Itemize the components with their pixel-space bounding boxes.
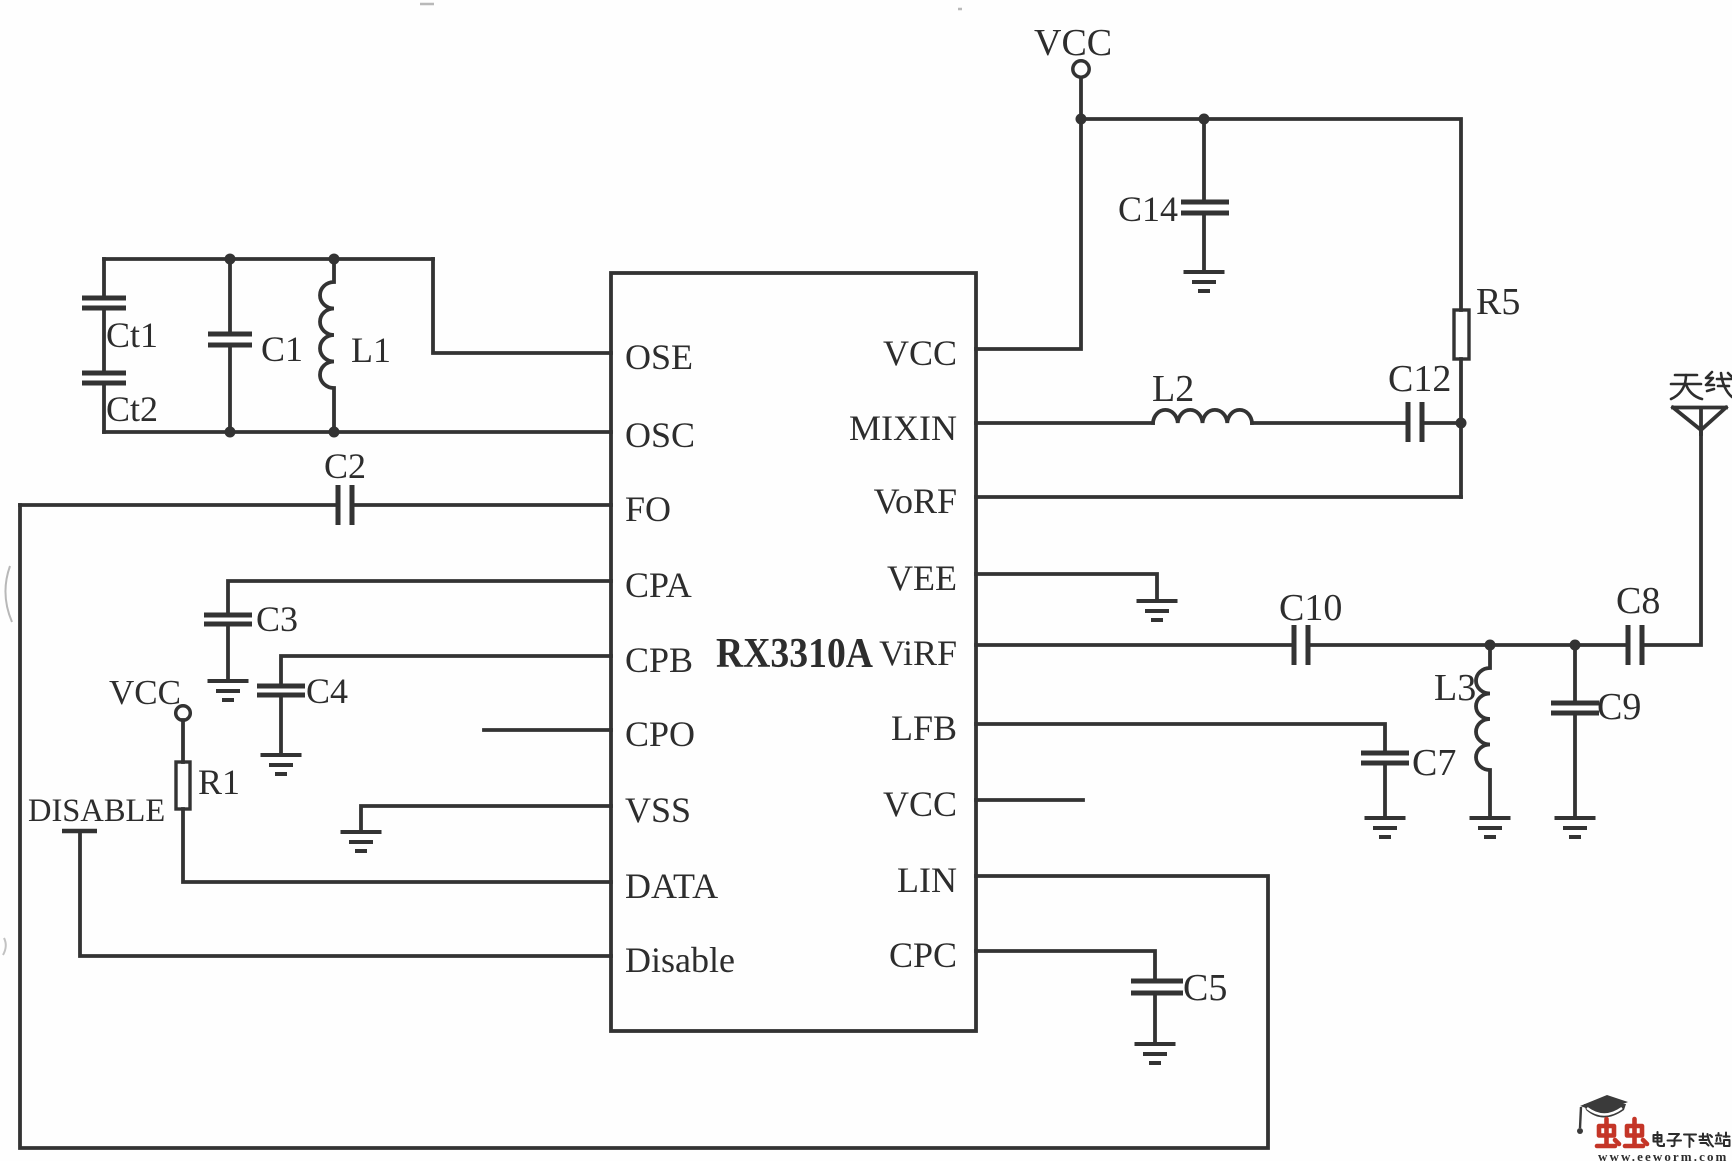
svg-text:VSS: VSS (625, 790, 691, 830)
capacitor Ct2 (82, 373, 126, 383)
svg-text:L1: L1 (351, 330, 391, 370)
scan artifact: left edge arc (5, 566, 12, 622)
wire: C12 to node (1422, 421, 1461, 425)
wire: tank to OSE pin (433, 259, 611, 353)
wire: C14 top lead (1202, 119, 1206, 200)
terminal: DISABLE input bar (62, 829, 97, 834)
scan artifact: top specks (420, 4, 962, 9)
svg-text:CPO: CPO (625, 714, 695, 754)
junction: L1 bottom (329, 427, 340, 438)
wire: C9 top lead (1573, 645, 1577, 701)
svg-text:L2: L2 (1152, 368, 1194, 410)
wire: C14 to ground (1202, 215, 1206, 272)
ground under C4 (261, 755, 302, 774)
wire: L2 to C12 (1252, 421, 1408, 425)
wire: oscillator tank left vertical (gaps at Ct1, Ct2) (102, 259, 106, 432)
wire: C3 to ground (226, 626, 230, 681)
svg-text:R5: R5 (1476, 281, 1520, 323)
watermark: red chong character 2 (1625, 1119, 1647, 1146)
antenna symbol (1673, 408, 1726, 435)
wire: CPB pin to C4 (281, 656, 611, 684)
wire: MIXIN pin to L2 (976, 421, 1153, 425)
wire: C10 to C8 across L3 and C9 nodes (1308, 643, 1628, 647)
wire: oscillator tank top rail (104, 257, 433, 261)
wire: FO pin to C2 (352, 503, 611, 507)
wire: VCC terminal down to VCC pin (976, 78, 1081, 349)
scan artifact: left edge tick (3, 938, 6, 955)
svg-text:C1: C1 (261, 329, 303, 369)
wire: feedback loop left, bottom and LIN riser (20, 505, 1268, 1148)
capacitor Ct1 (82, 298, 126, 308)
IC U1 RX3310A body (611, 273, 976, 1031)
capacitor C9 (1551, 703, 1599, 713)
svg-text:DISABLE: DISABLE (28, 793, 165, 829)
svg-text:DATA: DATA (625, 866, 718, 906)
ground under L3 (1470, 818, 1511, 837)
capacitor C12 (1408, 402, 1422, 442)
capacitor C10 (1294, 625, 1308, 665)
junction: C14 / rail (1199, 114, 1210, 125)
svg-text:CPB: CPB (625, 640, 693, 680)
svg-text:C5: C5 (1183, 967, 1227, 1009)
resistor R5 (1454, 310, 1469, 359)
watermark: red chong character 1 (1597, 1119, 1619, 1146)
svg-text:RX3310A: RX3310A (716, 631, 874, 677)
wire: OSC net bottom rail into OSC pin (104, 430, 611, 434)
capacitor C8 (1628, 625, 1642, 665)
inductor L1 (320, 259, 334, 432)
terminal: VCC circle top (1073, 61, 1089, 77)
inductor L3 (1476, 645, 1490, 817)
wire: VCC terminal to R1 (181, 720, 185, 762)
wire: VEE pin to ground (976, 574, 1157, 599)
junction: VCC riser / rail (1076, 114, 1087, 125)
svg-text:C12: C12 (1388, 358, 1451, 400)
svg-text:VCC: VCC (1034, 22, 1112, 64)
svg-text:C9: C9 (1597, 686, 1641, 728)
svg-text:C7: C7 (1412, 742, 1456, 784)
watermark: site name dian (1654, 1132, 1665, 1146)
wire: VoRF pin to node riser (976, 495, 1461, 499)
svg-text:CPA: CPA (625, 565, 692, 605)
ground under C3 (208, 681, 249, 700)
svg-text:C4: C4 (306, 671, 348, 711)
svg-text:www.eeworm.com: www.eeworm.com (1598, 1149, 1728, 1161)
capacitor C2 (338, 485, 352, 525)
wire: C2 to feedback loop left edge (20, 503, 338, 507)
capacitor C14 (1181, 202, 1229, 213)
ground at VSS (341, 832, 382, 851)
svg-text:VCC: VCC (883, 784, 957, 824)
svg-text:Disable: Disable (625, 940, 735, 980)
capacitor C4 (257, 686, 305, 695)
svg-text:LIN: LIN (897, 860, 957, 900)
watermark: site name zi (1668, 1134, 1682, 1146)
wire: LFB pin to C7 (976, 724, 1385, 751)
svg-text:CPC: CPC (889, 935, 957, 975)
svg-text:C14: C14 (1118, 189, 1178, 229)
svg-text:OSC: OSC (625, 415, 695, 455)
inductor L2 (1153, 410, 1252, 423)
svg-text:FO: FO (625, 489, 671, 529)
wire: DISABLE to Disable pin (80, 833, 611, 956)
ground under C14 (1184, 272, 1225, 291)
svg-text:VEE: VEE (887, 558, 957, 598)
wire: C9 to ground (1573, 715, 1577, 818)
wire: VCC right lower stub (976, 798, 1083, 802)
junction: L3 node (1485, 640, 1496, 651)
wire: R5 bottom to C12 node and VoRF (1459, 359, 1463, 497)
svg-text:Ct2: Ct2 (106, 389, 158, 429)
ground under C5 (1135, 1044, 1176, 1063)
svg-text:Ct1: Ct1 (106, 315, 158, 355)
wire: VCC rail to R5 top (1081, 119, 1461, 310)
wire: C4 to ground (279, 697, 283, 755)
wire: C8 to antenna riser (1642, 431, 1701, 645)
label antenna Chinese xian (1706, 372, 1732, 397)
ground at VEE (1137, 601, 1178, 620)
svg-text:MIXIN: MIXIN (849, 408, 957, 448)
wire: C5 to ground (1153, 995, 1157, 1044)
watermark: site name xia (1684, 1135, 1696, 1148)
junction: L1 top (329, 254, 340, 265)
svg-text:VoRF: VoRF (874, 481, 957, 521)
terminal: VCC circle above R1 (176, 706, 191, 721)
svg-text:VCC: VCC (883, 333, 957, 373)
wire: CPA pin to C3 (228, 581, 611, 613)
svg-text:OSE: OSE (625, 337, 693, 377)
svg-text:C10: C10 (1279, 587, 1342, 629)
svg-text:C2: C2 (324, 446, 366, 486)
wire: ViRF pin to C10 (976, 643, 1294, 647)
wire: C7 to ground (1383, 765, 1387, 818)
junction: C1 top (225, 254, 236, 265)
svg-text:L3: L3 (1434, 667, 1476, 709)
wire: CPC pin to C5 (976, 951, 1155, 979)
capacitor C5 (1131, 981, 1183, 993)
wire: R1 to DATA pin (183, 809, 611, 882)
svg-text:C3: C3 (256, 599, 298, 639)
svg-text:R1: R1 (198, 762, 240, 802)
wire: VSS pin to ground (361, 806, 611, 830)
svg-text:ViRF: ViRF (879, 633, 957, 673)
watermark: graduation cap icon (1577, 1095, 1628, 1134)
watermark: site name zai (1700, 1134, 1714, 1147)
capacitor C3 (204, 615, 252, 624)
capacitor C1 (208, 259, 252, 432)
ground under C9 (1555, 818, 1596, 837)
wire: CPO stub (484, 728, 611, 732)
svg-text:C8: C8 (1616, 580, 1660, 622)
svg-text:LFB: LFB (891, 708, 957, 748)
capacitor C7 (1361, 753, 1409, 763)
junction: C12 / R5 / VoRF node (1456, 418, 1467, 429)
watermark: site name zhan (1716, 1133, 1730, 1147)
label antenna Chinese tian (1671, 375, 1702, 399)
junction: C1 bottom (225, 427, 236, 438)
ground under C7 (1365, 818, 1406, 837)
resistor R1 (176, 762, 190, 809)
svg-text:VCC: VCC (109, 673, 181, 712)
junction: C9 node (1570, 640, 1581, 651)
